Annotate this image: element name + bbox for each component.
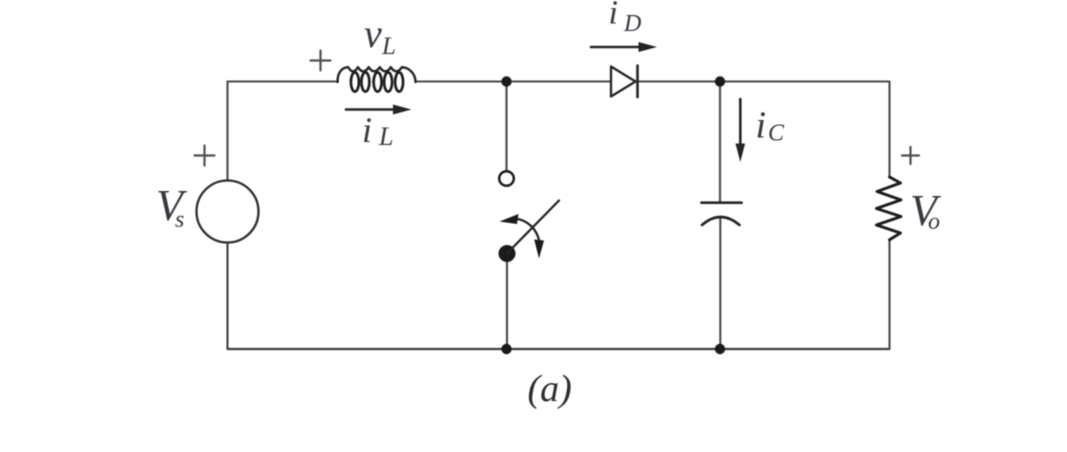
capacitor C curved plate bbox=[702, 217, 740, 225]
junction node switch-top bbox=[501, 76, 511, 86]
switch lever bbox=[507, 201, 559, 254]
svg-text:i: i bbox=[362, 110, 372, 150]
inductor L humps bbox=[338, 67, 416, 82]
svg-text:C: C bbox=[768, 121, 785, 147]
polarity plus of source bbox=[195, 146, 215, 166]
polarity plus of output bbox=[902, 147, 919, 164]
wire left upper segment bbox=[226, 82, 228, 182]
switch open terminal bbox=[499, 171, 514, 186]
switch toggle arrowhead left bbox=[500, 214, 519, 224]
junction node capacitor-bottom bbox=[715, 344, 725, 354]
inductor L loop 2 bbox=[361, 72, 369, 91]
svg-text:L: L bbox=[378, 122, 393, 151]
svg-text:i: i bbox=[609, 0, 618, 32]
inductor L loop 1 bbox=[351, 72, 359, 91]
wire capacitor branch upper bbox=[719, 82, 721, 203]
junction node capacitor-top bbox=[715, 76, 725, 86]
junction node switch-bottom bbox=[501, 344, 511, 354]
wire bottom segment bbox=[228, 348, 890, 350]
diode D triangle bbox=[611, 67, 636, 97]
inductor L loop 5 bbox=[395, 72, 403, 91]
wire right lower segment bbox=[888, 240, 890, 349]
svg-text:D: D bbox=[623, 11, 641, 37]
current arrow iL bbox=[346, 105, 412, 115]
label Vo bbox=[910, 186, 942, 235]
inductor L loop 4 bbox=[384, 72, 392, 91]
wire right upper segment bbox=[888, 82, 890, 178]
wire top-left segment bbox=[228, 80, 339, 82]
label vL bbox=[364, 11, 396, 60]
current arrow iD bbox=[591, 42, 657, 52]
current arrow iC bbox=[736, 99, 746, 162]
wire capacitor branch lower bbox=[719, 217, 721, 349]
wire top middle segment bbox=[416, 80, 612, 82]
label Vs bbox=[156, 181, 188, 233]
capacitor C top plate bbox=[702, 201, 742, 204]
svg-text:s: s bbox=[175, 207, 184, 233]
wire top right segment bbox=[638, 80, 890, 82]
switch pole dot bbox=[499, 245, 516, 262]
switch toggle arrow arc bbox=[517, 219, 540, 242]
svg-text:(a): (a) bbox=[528, 368, 572, 410]
polarity plus of inductor bbox=[311, 51, 331, 71]
label iC bbox=[756, 105, 786, 147]
wire left lower segment bbox=[226, 243, 228, 350]
svg-text:i: i bbox=[756, 105, 767, 147]
switch toggle arrowhead down bbox=[534, 240, 544, 259]
voltage source Vs bbox=[197, 181, 259, 243]
wire switch branch lower bbox=[506, 254, 508, 350]
label iD bbox=[609, 0, 642, 37]
resistor R zigzag bbox=[876, 177, 901, 240]
svg-text:L: L bbox=[381, 33, 396, 60]
inductor L loop 3 bbox=[374, 72, 382, 91]
wire switch branch upper bbox=[505, 82, 507, 172]
diode D cathode bar bbox=[636, 66, 639, 98]
label iL bbox=[362, 110, 393, 151]
svg-text:v: v bbox=[364, 11, 382, 56]
svg-text:o: o bbox=[928, 209, 940, 235]
